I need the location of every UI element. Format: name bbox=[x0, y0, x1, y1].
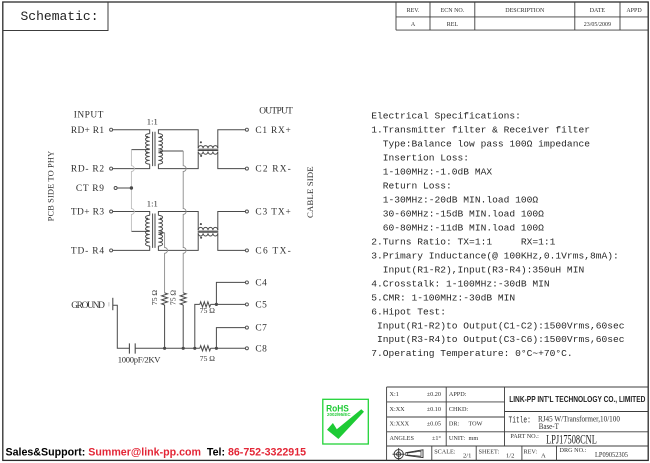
svg-text:1.Transmitter filter & Receive: 1.Transmitter filter & Receiver filter bbox=[371, 124, 590, 135]
svg-text:C5: C5 bbox=[255, 301, 267, 311]
svg-text:TOW: TOW bbox=[469, 421, 483, 428]
svg-text:75 Ω: 75 Ω bbox=[169, 290, 178, 305]
svg-text:C7: C7 bbox=[255, 324, 267, 334]
svg-text:TD+ R3: TD+ R3 bbox=[71, 208, 104, 218]
svg-text:C6 TX-: C6 TX- bbox=[255, 247, 290, 257]
terminal C3 bbox=[245, 210, 248, 213]
svg-text:LINK-PP INT'L TECHNOLOGY CO.,: LINK-PP INT'L TECHNOLOGY CO., LIMITED bbox=[509, 394, 645, 404]
svg-text:1000pF/2KV: 1000pF/2KV bbox=[118, 355, 161, 365]
svg-text:2.Turns Ratio: TX=1:1 RX=1: 2.Turns Ratio: TX=1:1 RX=1:1 bbox=[371, 236, 555, 247]
wire choke L1 top to C1 bbox=[218, 130, 246, 149]
approval labels bbox=[449, 391, 483, 442]
resistor 75 ohm (T2 CT) bbox=[162, 293, 168, 305]
terminal C6 bbox=[245, 249, 248, 252]
svg-text:Type:Balance low pass 100Ω imp: Type:Balance low pass 100Ω impedance bbox=[371, 138, 590, 149]
svg-text:PCB SIDE TO PHY: PCB SIDE TO PHY bbox=[46, 151, 55, 222]
svg-text:1:1: 1:1 bbox=[147, 198, 158, 208]
svg-text:CABLE SIDE: CABLE SIDE bbox=[305, 166, 315, 218]
svg-text:C1 RX+: C1 RX+ bbox=[255, 126, 290, 136]
wire resistor to C8 bbox=[211, 347, 246, 349]
svg-text:ECN NO.: ECN NO. bbox=[441, 8, 465, 14]
wire CT bus (center taps of T1/T2) bbox=[131, 150, 134, 232]
svg-text:Base-T: Base-T bbox=[539, 422, 559, 431]
terminal R3 bbox=[110, 210, 113, 213]
svg-text:OUTPUT: OUTPUT bbox=[259, 107, 293, 117]
wire T1 secondary bottom to choke L1 bottom bbox=[158, 152, 198, 169]
choke L2 top winding bbox=[198, 227, 218, 230]
svg-text:Input(R1-R2)to Output(C1-C2):1: Input(R1-R2)to Output(C1-C2):1500Vrms,60… bbox=[371, 320, 625, 331]
svg-text:±0.05: ±0.05 bbox=[427, 421, 441, 428]
transformer T2 polarity dots bbox=[146, 218, 162, 236]
svg-text:2002/95/EC: 2002/95/EC bbox=[327, 412, 351, 417]
svg-text:RD- R2: RD- R2 bbox=[71, 165, 104, 175]
resistor 75 ohm (series C5) bbox=[200, 302, 211, 307]
svg-text:GROUND: GROUND bbox=[71, 301, 105, 311]
svg-text:Return Loss:: Return Loss: bbox=[371, 180, 452, 191]
transformer T1 primary winding bbox=[146, 134, 150, 165]
wire resistor to ground bus bbox=[182, 305, 184, 348]
svg-text:60-80MHz:-11dB MIN.load 100Ω: 60-80MHz:-11dB MIN.load 100Ω bbox=[371, 222, 544, 233]
svg-text:LP09052305: LP09052305 bbox=[595, 451, 628, 459]
capacitor 1000pF/2KV bbox=[129, 343, 135, 353]
svg-text:23/05/2009: 23/05/2009 bbox=[584, 22, 611, 28]
revision table headers bbox=[407, 8, 643, 14]
wire node to C4 bbox=[216, 282, 245, 304]
revision table grid bbox=[396, 2, 648, 30]
svg-text:30-60MHz:-15dB MIN.load 100Ω: 30-60MHz:-15dB MIN.load 100Ω bbox=[371, 208, 544, 219]
svg-text:X:XX: X:XX bbox=[390, 406, 406, 413]
svg-text:UNIT:: UNIT: bbox=[449, 435, 465, 442]
wire choke L2 bottom to C6 bbox=[218, 233, 246, 250]
terminal R9 bbox=[114, 187, 117, 190]
svg-text:Input(R3-R4)to Output(C3-C6):1: Input(R3-R4)to Output(C3-C6):1500Vrms,60… bbox=[371, 334, 625, 345]
svg-text:5.CMR: 1-100MHz:-30dB MIN: 5.CMR: 1-100MHz:-30dB MIN bbox=[371, 292, 515, 303]
wire T2 center tap down to resistor bbox=[165, 233, 168, 293]
wire R1 to T1 primary top bbox=[113, 130, 150, 134]
svg-text:SHEET:: SHEET: bbox=[479, 448, 500, 455]
wire T1 center tap down to resistor bbox=[183, 151, 186, 293]
ground bus wire bbox=[135, 347, 200, 349]
title block grid bbox=[387, 387, 649, 460]
svg-text:RD+ R1: RD+ R1 bbox=[71, 126, 104, 136]
junction dot C5 node bbox=[215, 303, 218, 306]
transformer T2 primary winding bbox=[145, 215, 149, 246]
svg-text:Title:: Title: bbox=[509, 415, 531, 426]
terminal C7 bbox=[245, 326, 248, 329]
terminal R1 bbox=[110, 128, 113, 131]
svg-text:REV:: REV: bbox=[524, 448, 538, 455]
svg-text:1-100MHz:-1.0dB MAX: 1-100MHz:-1.0dB MAX bbox=[371, 166, 492, 177]
svg-text:REL: REL bbox=[447, 22, 459, 28]
wire R9 to CT junction bbox=[117, 187, 131, 189]
wire bus up to C5 resistor bbox=[195, 304, 200, 348]
svg-text:DATE: DATE bbox=[590, 8, 606, 14]
projection symbol circle bbox=[393, 448, 405, 460]
terminal C2 bbox=[245, 167, 248, 170]
terminal R4 bbox=[110, 249, 113, 252]
svg-text:ANGLES: ANGLES bbox=[390, 435, 415, 442]
svg-text:Electrical Specifications:: Electrical Specifications: bbox=[371, 110, 521, 121]
svg-text:4.Crosstalk: 1-100MHz:-30dB MI: 4.Crosstalk: 1-100MHz:-30dB MIN bbox=[371, 278, 549, 289]
wire T1 primary bottom to R2 bbox=[113, 164, 150, 168]
wire choke L1 bottom to C2 bbox=[218, 152, 246, 169]
svg-text:PART NO.:: PART NO.: bbox=[510, 433, 539, 440]
wire T2 primary bottom to R4 bbox=[113, 246, 150, 250]
svg-text:C3 TX+: C3 TX+ bbox=[255, 208, 290, 218]
svg-text:Insertion Loss:: Insertion Loss: bbox=[371, 152, 469, 163]
transformer T1 secondary winding bbox=[158, 134, 162, 165]
wire T2 primary center tap stub bbox=[131, 230, 149, 232]
choke L1 bottom winding bbox=[198, 152, 218, 155]
wire ground to capacitor bbox=[113, 305, 130, 348]
svg-text:X:1: X:1 bbox=[390, 391, 399, 398]
svg-text:LPJ17508CNL: LPJ17508CNL bbox=[546, 433, 597, 447]
wire T1 secondary top to choke L1 bbox=[158, 130, 198, 149]
terminal C8 bbox=[245, 347, 248, 350]
RoHS checkmark bbox=[327, 409, 364, 439]
svg-text:7.Operating Temperature: 0°C~+: 7.Operating Temperature: 0°C~+70°C. bbox=[371, 348, 573, 359]
svg-text:±0.20: ±0.20 bbox=[427, 391, 441, 398]
wire R3 to T2 primary top bbox=[113, 212, 150, 216]
svg-text:DESCRIPTION: DESCRIPTION bbox=[505, 8, 545, 14]
svg-text:mm: mm bbox=[469, 435, 479, 442]
projection symbol cone bbox=[406, 450, 423, 458]
terminal C4 bbox=[245, 281, 248, 284]
svg-text:INPUT: INPUT bbox=[74, 110, 104, 120]
svg-text:TD- R4: TD- R4 bbox=[71, 247, 104, 257]
choke L2 polarity dots bbox=[200, 223, 202, 239]
svg-text:6.Hipot Test:: 6.Hipot Test: bbox=[371, 306, 446, 317]
svg-text:DR:: DR: bbox=[449, 421, 460, 428]
schematic title box bbox=[3, 2, 108, 31]
svg-text:CHKD:: CHKD: bbox=[449, 406, 469, 413]
svg-text:±1°: ±1° bbox=[432, 435, 441, 442]
ground terminal symbol bbox=[108, 302, 110, 306]
svg-text:CT R9: CT R9 bbox=[76, 184, 104, 194]
svg-text:Schematic:: Schematic: bbox=[21, 9, 99, 24]
revision table row A REL 23/05/2009 bbox=[411, 22, 611, 28]
svg-text:±0.10: ±0.10 bbox=[427, 406, 441, 413]
svg-text:1:1: 1:1 bbox=[147, 117, 158, 127]
electrical specifications text bbox=[371, 110, 625, 359]
svg-text:C4: C4 bbox=[255, 279, 267, 289]
wire T2 secondary top to choke L2 bbox=[158, 212, 198, 231]
svg-text:A: A bbox=[411, 22, 416, 28]
wire resistor to ground bus bbox=[164, 305, 166, 348]
svg-text:Sales&Support: Summer@link-pp.: Sales&Support: Summer@link-pp.com Tel: 8… bbox=[6, 446, 307, 458]
svg-text:X:XXX: X:XXX bbox=[390, 421, 410, 428]
choke L2 bottom winding bbox=[198, 233, 218, 236]
resistor 75 ohm (T1 CT) bbox=[180, 293, 186, 305]
tolerance labels bbox=[390, 391, 442, 442]
svg-text:3.Primary Inductance(@ 100KHz,: 3.Primary Inductance(@ 100KHz,0.1Vrms,8m… bbox=[371, 250, 619, 261]
choke L1 top winding bbox=[198, 146, 218, 149]
wire T1 secondary center tap stub bbox=[158, 150, 183, 152]
RoHS logo box bbox=[323, 399, 369, 444]
svg-text:A: A bbox=[541, 453, 546, 460]
svg-text:DRG NO.:: DRG NO.: bbox=[560, 447, 587, 454]
terminal C1 bbox=[245, 128, 248, 131]
svg-text:REV.: REV. bbox=[407, 8, 420, 14]
junction dot CT node bbox=[130, 186, 133, 189]
choke L2 core bbox=[198, 231, 219, 232]
svg-text:C8: C8 bbox=[255, 344, 267, 354]
svg-text:75 Ω: 75 Ω bbox=[200, 306, 215, 315]
transformer T1 polarity dots bbox=[146, 136, 162, 154]
transformer T2 secondary winding bbox=[158, 215, 162, 246]
wire node to C7 bbox=[216, 328, 245, 349]
svg-text:Input(R1-R2),Input(R3-R4):350u: Input(R1-R2),Input(R3-R4):350uH MIN bbox=[371, 264, 584, 275]
wire T2 secondary center tap stub bbox=[158, 232, 164, 234]
svg-text:75 Ω: 75 Ω bbox=[150, 290, 159, 305]
terminal C5 bbox=[245, 303, 248, 306]
svg-text:C2 RX-: C2 RX- bbox=[255, 165, 290, 175]
wire T1 primary center tap stub bbox=[131, 149, 149, 151]
svg-text:75 Ω: 75 Ω bbox=[200, 354, 215, 363]
svg-text:APPD: APPD bbox=[626, 8, 642, 14]
svg-text:APPD:: APPD: bbox=[449, 391, 467, 398]
svg-text:1/2: 1/2 bbox=[506, 453, 514, 460]
svg-text:SCALE:: SCALE: bbox=[434, 448, 456, 455]
choke L1 polarity dots bbox=[200, 141, 202, 157]
terminal R2 bbox=[110, 167, 113, 170]
svg-text:2/1: 2/1 bbox=[463, 453, 471, 460]
junction dots on ground bus bbox=[163, 347, 218, 350]
wire choke L2 top to C3 bbox=[218, 212, 246, 231]
resistor 75 ohm (series C8) bbox=[200, 346, 211, 351]
choke L1 core bbox=[198, 149, 219, 150]
wire resistor to C5 bbox=[211, 303, 246, 305]
transformer T2 core bbox=[153, 214, 155, 248]
wire T2 secondary bottom to choke L2 bottom bbox=[158, 233, 198, 250]
transformer T1 core bbox=[153, 132, 155, 166]
svg-text:1-30MHz:-20dB MIN.load 100Ω: 1-30MHz:-20dB MIN.load 100Ω bbox=[371, 194, 538, 205]
